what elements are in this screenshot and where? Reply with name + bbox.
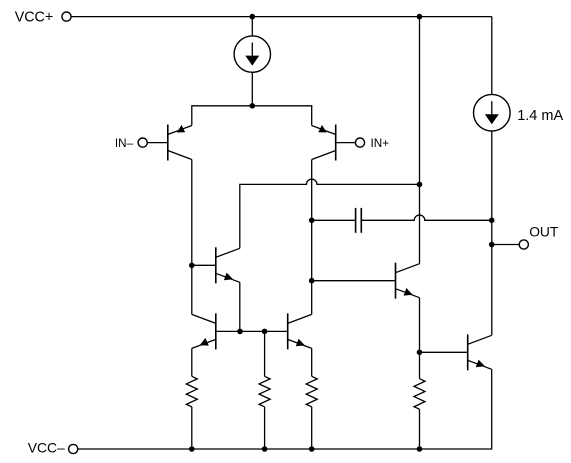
node rail x=419.5 top junction — [417, 14, 423, 20]
wire Q6 emitter to R4 — [419, 298, 421, 379]
wire Q4-Q5 base link — [217, 330, 287, 332]
terminal VCC+ — [15, 10, 71, 26]
svg-text:IN+: IN+ — [371, 137, 390, 150]
wire R4 to VCC- rail — [419, 409, 421, 449]
node cap right output junction — [489, 218, 495, 224]
wire Q3 collector up and across with hop to rail — [240, 179, 420, 248]
terminal VCC- — [28, 440, 78, 456]
node OUT junction — [489, 242, 495, 248]
terminal IN- — [115, 137, 147, 150]
node Q3 base junction — [189, 263, 195, 269]
wire Q2 base lead — [336, 142, 355, 144]
capacitor C1 — [356, 208, 362, 233]
node R3 bottom rail junction — [309, 446, 315, 452]
node R2 bottom rail junction — [262, 446, 268, 452]
svg-text:VCC+: VCC+ — [15, 10, 54, 26]
svg-text:OUT: OUT — [529, 225, 559, 240]
capacitor C1 left lead — [312, 219, 355, 221]
current source I2 (1.4 mA) — [474, 94, 564, 131]
wire Q2 collector drop to Q5 collector — [311, 160, 313, 315]
resistor R1 — [186, 376, 197, 407]
wire R2 to VCC- rail — [264, 407, 266, 449]
terminal IN+ — [355, 137, 389, 150]
wire emitter rail of input pair — [192, 106, 312, 126]
wire Q1 collector drop to Q4 collector — [191, 160, 193, 315]
wire Q1 base lead — [147, 142, 167, 144]
node Q3 emitter mirror base junction — [237, 329, 243, 335]
wire OUT tap — [492, 244, 520, 246]
resistor R3 — [306, 376, 317, 407]
wire top VCC+ rail — [71, 16, 492, 18]
wire Q7 base lead — [420, 351, 467, 353]
wire I2 to output node and Q7 collector — [491, 131, 493, 335]
node Q7 base junction — [417, 350, 423, 356]
svg-text:IN–: IN– — [115, 137, 134, 150]
node cap left junction — [309, 218, 315, 224]
wire collector rail x=419.5 — [419, 17, 421, 264]
transistor Q2 (IN+ PNP) — [312, 125, 336, 161]
node R2 top junction — [262, 329, 268, 335]
wire Q5 emitter to R3 — [311, 348, 313, 376]
node R1 bottom rail junction — [189, 446, 195, 452]
transistor Q4 (PNP) — [192, 313, 216, 349]
node Q3 collector to rail junction — [417, 182, 423, 188]
wire Q3 base lead — [192, 264, 215, 266]
resistor R2 — [259, 376, 270, 407]
terminal OUT — [519, 225, 559, 249]
wire mirror node to R2 — [264, 331, 266, 376]
wire R3 to VCC- rail — [311, 407, 313, 449]
transistor Q5 (NPN) — [288, 313, 312, 349]
capacitor C1 right lead with hop over rail — [362, 215, 492, 220]
node input pair tail junction — [250, 103, 256, 109]
wire Q6 emitter node dot tap is below; Q7 emitter down and VCC- rail — [78, 369, 492, 449]
svg-text:VCC–: VCC– — [28, 440, 65, 456]
transistor Q1 (IN- PNP) — [168, 125, 192, 161]
svg-text:1.4 mA: 1.4 mA — [517, 108, 563, 124]
transistor Q6 (second stage NPN) — [396, 263, 420, 299]
wire I1 top stem — [251, 17, 253, 36]
wire output column descent — [491, 17, 493, 95]
wire R1 to VCC- rail — [191, 407, 193, 449]
current source I1 — [234, 36, 270, 72]
wire Q3 emitter down to mirror base node — [239, 282, 241, 331]
resistor R4 — [414, 379, 425, 410]
node Q6 base junction — [309, 278, 315, 284]
wire I1 bottom stem to tail node — [251, 72, 253, 106]
transistor Q3 (NPN mirror) — [216, 247, 240, 283]
node R4 bottom rail junction — [417, 446, 423, 452]
wire Q6 base lead — [312, 280, 395, 282]
wire Q4 emitter to R1 — [191, 348, 193, 376]
node I1 top rail junction — [250, 14, 256, 20]
transistor Q7 (output NPN) — [468, 334, 492, 370]
